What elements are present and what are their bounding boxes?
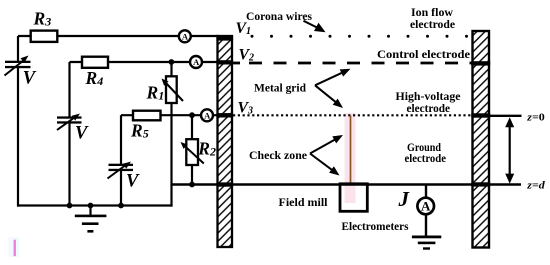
electrometer wire to ground [425,215,427,237]
arrow metal grid lower [315,85,343,108]
svg-text:A: A [204,111,211,121]
double arrow z axis [505,117,514,183]
node dot ground stem [88,203,94,209]
svg-text:Metal grid: Metal grid [254,81,306,95]
ammeter A4 [417,198,434,215]
wire connector to bottom rail [170,185,172,207]
electrometer branch wire [425,185,427,199]
ground symbol (electrometer) [412,236,441,250]
svg-text:z=0: z=0 [526,111,545,123]
wire bottom rail [17,204,173,206]
left electrode bar (hatched) [216,36,233,247]
field mill box [340,184,367,212]
ground electrode rail [172,183,522,185]
voltage source V (middle) [57,114,82,131]
resistor R5 [133,111,161,121]
resistor R2 (variable) [181,139,204,165]
right electrode bar (hatched) [471,31,490,248]
node junction V2 [169,59,175,65]
svg-text:V: V [126,172,140,192]
ground symbol (left circuit) [75,206,107,233]
wire vertical 3 [120,115,122,165]
ammeter A2 [190,56,202,68]
svg-text:z=d: z=d [526,179,545,191]
svg-text:electrode: electrode [405,151,447,165]
stray scan artifact (cyan wash + pink line, bottom-left) [9,238,20,258]
node junction ground R2 [189,182,195,188]
svg-text:A: A [193,57,200,67]
voltage source V (lower) [108,162,134,179]
resistor R1 (variable) [162,76,184,103]
wire top V1 rail [18,35,219,37]
svg-text:Corona wires: Corona wires [246,9,312,23]
ammeter A3 [201,109,213,121]
svg-text:Control electrode: Control electrode [377,47,471,61]
svg-text:Field mill: Field mill [279,195,329,209]
resistor R3 [31,31,58,42]
ammeter A1 [179,30,191,42]
check zone orange line [350,116,352,185]
z=0 line [490,115,522,117]
wire V3 rail [121,114,218,116]
wire R1 branch vertical [170,62,172,186]
wire vertical 2 [68,62,70,118]
wire left vertical from R3 down [17,36,19,62]
svg-text:electrode: electrode [407,101,451,115]
corona wires dots [251,35,469,38]
svg-text:A: A [182,32,189,42]
arrow check zone upper [310,135,343,154]
check zone pink band [345,113,356,203]
high voltage electrode dotted line [233,114,473,116]
svg-text:Check zone: Check zone [249,148,308,162]
voltage source V (left) [5,56,31,76]
arrow metal grid upper [315,69,351,86]
svg-text:A: A [421,199,431,214]
node dot wire2 [67,203,73,209]
control electrode dashed line [232,62,240,65]
svg-text:V: V [23,69,37,89]
node dot wire3 [118,203,124,209]
wire V2 rail [70,61,220,63]
wire R2 branch vertical [191,115,193,185]
node junction V3 [189,112,195,118]
resistor R4 [82,57,108,68]
arrow check zone lower [310,154,340,176]
svg-text:V: V [75,124,89,144]
svg-text:electrode: electrode [410,17,456,31]
arrow corona [304,21,326,33]
svg-text:Electrometers: Electrometers [342,219,409,233]
svg-text:J: J [398,187,411,211]
